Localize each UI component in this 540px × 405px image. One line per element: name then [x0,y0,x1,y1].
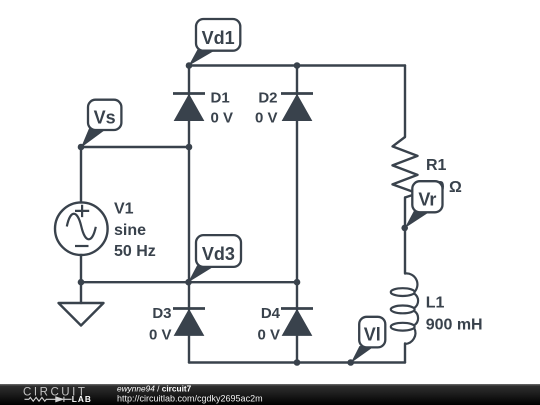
svg-text:0 V: 0 V [149,327,172,344]
inductor L1 [391,273,418,344]
wire D4 bottom [296,335,298,362]
svg-text:R1: R1 [426,157,447,174]
svg-text:Vd3: Vd3 [202,244,235,264]
diode D2 [255,89,313,126]
flag Vd3 [188,235,241,282]
node dots [78,62,408,366]
node Vl anchor [347,359,354,366]
wire V1 bottom [80,255,82,282]
node Vs-D1 junction [186,144,193,151]
node ground junction [78,279,85,286]
flag Vd1 [189,19,241,66]
svg-text:0 V: 0 V [257,327,280,344]
wire D2 branch top [296,66,298,95]
node D4 mid junction [294,279,301,286]
wire right branch upper [404,66,406,138]
voltage source V1 [55,202,108,255]
wire top rail [189,64,405,66]
svg-text:D1: D1 [211,89,230,106]
wire inductor bottom [404,344,406,363]
svg-text:sine: sine [114,222,146,239]
flag Vl [351,317,386,363]
svg-text:Vr: Vr [418,190,436,210]
wire V1 top [80,147,82,203]
diode D4 [257,305,313,344]
node D4 bottom junction [294,359,301,366]
wire D1 branch middle [188,121,190,283]
svg-text:D2: D2 [258,89,277,106]
node D2 top junction [294,62,301,69]
footer bar [0,384,540,405]
svg-text:0 V: 0 V [211,110,234,127]
wire D3 branch [188,282,190,310]
footer logo resistor-diode glyph [25,397,72,402]
wire bottom rail [189,361,405,363]
svg-text:ewynne94 / circuit7: ewynne94 / circuit7 [117,383,192,393]
wire D1 branch top [188,66,190,96]
svg-text:V1: V1 [114,201,134,218]
wire D2 branch middle [296,120,298,282]
svg-text:Vl: Vl [364,325,381,345]
flag Vs [81,100,122,148]
svg-text:900 mH: 900 mH [426,316,483,333]
wire mid rail [81,281,297,283]
node Vd3 anchor [185,279,192,286]
wire D3 bottom [188,335,190,362]
svg-text:0 V: 0 V [255,110,278,127]
node Vd1 anchor [186,62,193,69]
svg-text:LAB: LAB [72,394,92,404]
wire Vs horizontal [81,146,189,148]
node Vs anchor [78,144,85,151]
wire ground stem [80,282,82,303]
svg-text:L1: L1 [426,295,445,312]
svg-text:D3: D3 [152,305,171,322]
svg-text:Vs: Vs [94,107,116,127]
node Vr anchor [401,225,408,232]
flag Vr [405,181,443,228]
svg-text:http://circuitlab.com/cgdky269: http://circuitlab.com/cgdky2695ac2m [117,394,263,404]
diode D1 [173,89,233,126]
svg-text:50 Hz: 50 Hz [114,243,156,260]
svg-text:Vd1: Vd1 [202,28,235,48]
ground [59,303,104,326]
wire resistor to inductor [404,198,406,274]
wire D4 branch [296,282,298,310]
svg-text:D4: D4 [261,305,281,322]
resistor R1 [393,137,418,198]
diode D3 [149,305,205,344]
label V1 value [114,201,156,261]
